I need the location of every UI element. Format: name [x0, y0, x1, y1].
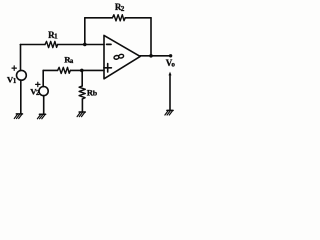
svg-text:2: 2 [121, 5, 125, 13]
svg-text:b: b [93, 89, 97, 98]
svg-text:2: 2 [36, 90, 40, 97]
op-amp minus input sign [107, 43, 111, 45]
label Vo [166, 58, 176, 69]
svg-text:1: 1 [54, 33, 58, 41]
wire feedback left vertical [84, 18, 86, 45]
wire feedback right vertical [150, 18, 152, 56]
label R1 [48, 30, 58, 41]
label Rb [87, 87, 97, 97]
ground V2 [37, 114, 45, 119]
wire Rb branch vertical [81, 70, 83, 112]
label V1 [7, 75, 17, 86]
resistor R2 [112, 15, 125, 21]
plus sign V1 [12, 66, 16, 71]
label R2 [115, 2, 125, 13]
wire V1 branch vertical [20, 45, 22, 114]
op-amp U1 [104, 35, 140, 78]
resistor Rb [79, 86, 85, 99]
wire output [140, 55, 170, 57]
node junction inverting input [83, 43, 87, 47]
ground Vo [165, 110, 173, 115]
resistor Ra [58, 67, 71, 73]
label V2 [30, 87, 40, 98]
ground Rb [77, 112, 85, 117]
svg-text:1: 1 [13, 78, 17, 85]
resistor R1 [45, 41, 58, 47]
source V2 [39, 87, 48, 96]
wire noninverting input horizontal [43, 69, 104, 71]
node output terminal [169, 54, 172, 57]
op-amp plus input sign [104, 64, 112, 72]
op-amp infinity gain label [114, 54, 124, 60]
node junction output feedback [149, 54, 153, 58]
wire inverting input horizontal [20, 44, 104, 46]
wire Vo reference vertical with arrow [169, 72, 172, 111]
wire feedback top horizontal [85, 17, 151, 19]
label Ra [64, 55, 74, 65]
svg-text:o: o [171, 61, 175, 69]
ground V1 [14, 114, 22, 119]
wire V2 branch vertical [42, 70, 45, 114]
node junction noninverting [80, 69, 84, 73]
svg-text:a: a [70, 58, 74, 65]
source V1 [17, 70, 27, 80]
plus sign V2 [36, 82, 40, 86]
